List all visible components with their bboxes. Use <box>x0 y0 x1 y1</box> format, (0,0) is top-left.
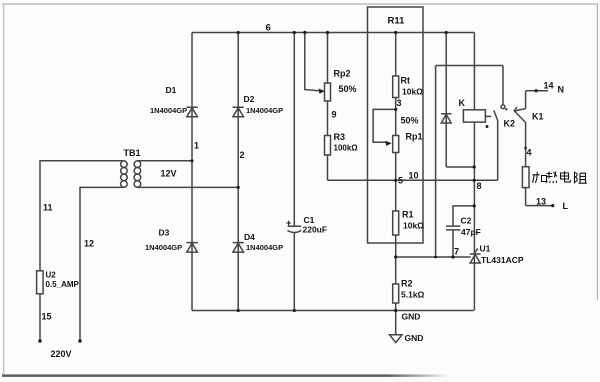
capacitor C1 plates <box>287 226 301 232</box>
svg-text:4: 4 <box>527 148 532 158</box>
junction C2 top corner <box>473 204 476 207</box>
wire: node 13 L terminal lead <box>526 205 553 207</box>
Rp2 wiper arrowhead <box>319 89 325 94</box>
svg-text:Rt: Rt <box>401 76 411 86</box>
frame border right <box>597 3 598 300</box>
svg-text:K: K <box>459 98 466 108</box>
svg-text:R11: R11 <box>388 16 406 27</box>
svg-text:50%: 50% <box>339 84 357 94</box>
svg-text:U2: U2 <box>46 271 57 280</box>
svg-text:2: 2 <box>240 150 245 160</box>
svg-text:1N4004GP: 1N4004GP <box>246 243 283 252</box>
frame border top <box>2 3 598 4</box>
wire: Rt/Rp1/R1/R2 main branch <box>395 33 397 311</box>
svg-text:R2: R2 <box>401 279 413 289</box>
wire: mains left lead to fuse <box>40 161 125 341</box>
diode D1 symbol <box>187 107 198 117</box>
switch K1 contact tick <box>514 107 517 111</box>
junction node on top rail at D2 <box>237 31 240 34</box>
dot node 4 <box>524 147 527 150</box>
svg-text:1N4004GP: 1N4004GP <box>150 106 187 115</box>
transformer TB1 primary winding <box>121 161 128 187</box>
svg-text:11: 11 <box>43 203 53 213</box>
wire: secondary bottom to node 2 <box>137 186 238 188</box>
svg-text:15: 15 <box>42 312 52 322</box>
svg-text:5.1kΩ: 5.1kΩ <box>401 290 425 300</box>
junction node on top rail at Rt <box>394 31 397 34</box>
junction node 7 at K2 feed <box>434 256 437 259</box>
svg-text:13: 13 <box>536 197 546 207</box>
svg-text:220V: 220V <box>51 349 72 359</box>
svg-text:10kΩ: 10kΩ <box>402 87 423 97</box>
svg-text:N: N <box>558 85 565 95</box>
svg-text:10: 10 <box>409 171 419 181</box>
svg-text:5: 5 <box>398 176 403 186</box>
heating resistor label char 1 jia <box>533 172 547 183</box>
heating resistor label char 4 zu <box>575 172 587 184</box>
terminal dot node 14 <box>535 89 538 92</box>
svg-text:8: 8 <box>477 181 482 191</box>
heating resistor body <box>522 167 529 188</box>
Rp1 wiper arrowhead <box>385 141 391 146</box>
svg-text:C2: C2 <box>461 216 472 226</box>
svg-text:50%: 50% <box>401 116 419 126</box>
svg-text:GND: GND <box>405 333 424 343</box>
wire: bottom negative rail <box>192 310 474 312</box>
wire: K2 fixed contact drop <box>502 66 504 105</box>
wire: relay coil / TL431 cathode vertical <box>473 33 475 311</box>
wire: C2 branch lower <box>452 230 454 257</box>
svg-text:1N4004GP: 1N4004GP <box>246 106 283 115</box>
resistor body R2 <box>393 284 399 303</box>
svg-text:C1: C1 <box>304 215 315 225</box>
wire: D1/D3 vertical branch <box>191 33 193 311</box>
junction node 8 on control rail <box>473 179 476 182</box>
capacitor C2 plates <box>446 226 460 230</box>
wire: K2 moving blade <box>494 110 498 180</box>
wire: K1 fixed contact drop <box>525 91 527 109</box>
wire: Rp2 wiper feed <box>305 33 321 91</box>
wire: C2 branch upper <box>453 206 474 226</box>
wire: D2/D4 vertical branch <box>237 33 239 311</box>
svg-text:L: L <box>563 201 569 211</box>
svg-text:K1: K1 <box>532 112 544 122</box>
junction node on top rail at C1 <box>293 31 296 34</box>
fuse U2 body <box>37 271 44 294</box>
resistor body R1 <box>393 211 399 235</box>
svg-text:K2: K2 <box>504 119 516 129</box>
svg-text:6: 6 <box>266 23 271 34</box>
wire: node 14 N terminal lead <box>526 90 548 92</box>
svg-text:D1: D1 <box>166 85 177 95</box>
diode D3 symbol <box>187 243 198 253</box>
wire: diode to coil bottom link <box>446 166 474 168</box>
junction node 2 secondary bottom <box>237 186 240 189</box>
relay K coil box <box>463 110 485 122</box>
svg-text:0.5_AMP: 0.5_AMP <box>46 280 80 289</box>
heating resistor label char 3 dian <box>561 171 571 182</box>
K2 fixed contact circle <box>501 105 505 109</box>
svg-text:D2: D2 <box>244 94 255 104</box>
wire: node 7 reference line <box>396 256 471 258</box>
resistor body R3 <box>325 136 331 156</box>
terminal dot 220V right <box>78 339 81 342</box>
svg-text:10kΩ: 10kΩ <box>403 221 424 231</box>
switch K1 blade <box>514 109 525 123</box>
resistor body Rt <box>393 76 399 98</box>
terminal dot node 13 <box>551 204 554 207</box>
svg-text:U1: U1 <box>480 244 491 254</box>
wire: C1 branch lower <box>293 233 295 311</box>
junction node 7 at R1 R2 <box>394 255 397 258</box>
resistor body Rp2 <box>325 83 331 101</box>
svg-text:12V: 12V <box>161 169 177 179</box>
svg-text:7: 7 <box>454 247 459 257</box>
svg-text:GND: GND <box>402 312 421 322</box>
svg-text:100kΩ: 100kΩ <box>334 144 359 153</box>
junction bottom rail at GND <box>394 309 397 312</box>
wire: secondary top to node 1 <box>137 160 192 162</box>
junction node on top rail at Rp2 <box>326 31 329 34</box>
junction coil bottom <box>473 165 476 168</box>
svg-text:Rp2: Rp2 <box>334 69 351 79</box>
K2 contact tick dot <box>505 108 507 110</box>
svg-text:47pF: 47pF <box>461 227 481 237</box>
stray dot near relay <box>486 125 489 128</box>
junction node 1 secondary top <box>190 159 193 162</box>
frame border left <box>3 3 4 374</box>
wire: K1 to heater node 4 <box>525 123 527 167</box>
frame border bottom dark bar <box>2 374 450 377</box>
svg-text:220uF: 220uF <box>303 225 328 235</box>
svg-text:TL431ACP: TL431ACP <box>481 255 524 265</box>
junction node on top rail at flyback diode <box>445 31 448 34</box>
svg-text:12: 12 <box>84 239 94 249</box>
wire: control rail nodes 5 10 8 <box>328 179 498 181</box>
wire: mains right lead <box>80 187 125 341</box>
junction node on top rail at wiper feed <box>303 31 306 34</box>
svg-text:Rp1: Rp1 <box>406 132 423 142</box>
svg-text:D4: D4 <box>244 232 255 242</box>
wire: flyback diode branch <box>445 33 447 168</box>
heating resistor label char 2 re <box>546 172 557 184</box>
wire: C1 branch upper <box>293 33 295 227</box>
svg-text:+: + <box>286 218 291 228</box>
U1 TL431 symbol <box>470 248 481 263</box>
junction bottom rail at C1 <box>293 309 296 312</box>
svg-text:1N4004GP: 1N4004GP <box>145 243 182 252</box>
svg-text:3: 3 <box>397 98 402 108</box>
flyback diode symbol <box>441 114 451 123</box>
svg-text:14: 14 <box>544 81 554 91</box>
junction bottom rail at D4 <box>237 309 240 312</box>
wire: relay coil to blade link <box>485 115 491 117</box>
junction node 7 at C2 <box>451 255 454 258</box>
wire: heater to node 13 <box>525 188 527 206</box>
svg-text:R1: R1 <box>402 210 414 220</box>
transformer TB1 secondary winding <box>134 161 141 187</box>
wire: top positive rail node 6 <box>192 32 474 34</box>
wire: Rp1 wiper loop from node 3 <box>373 109 396 142</box>
svg-text:TB1: TB1 <box>124 148 141 158</box>
svg-text:D3: D3 <box>159 228 170 238</box>
resistor body Rp1 <box>393 136 399 153</box>
svg-text:1: 1 <box>194 141 199 151</box>
ground symbol <box>390 311 403 343</box>
diode D2 symbol <box>233 107 244 117</box>
terminal dot 220V left <box>38 339 41 342</box>
svg-text:R3: R3 <box>334 132 346 142</box>
junction node 5 on control rail <box>394 179 397 182</box>
wire: K2 feed vertical from node7 line <box>435 66 437 258</box>
wire: horizontal link to K2 contact <box>436 65 503 67</box>
diode D4 symbol <box>233 243 244 253</box>
box R11 module outline <box>368 7 424 243</box>
svg-text:9: 9 <box>332 110 337 120</box>
junction node 3 <box>394 108 397 111</box>
wire: Rp2/R3 branch <box>327 33 329 181</box>
